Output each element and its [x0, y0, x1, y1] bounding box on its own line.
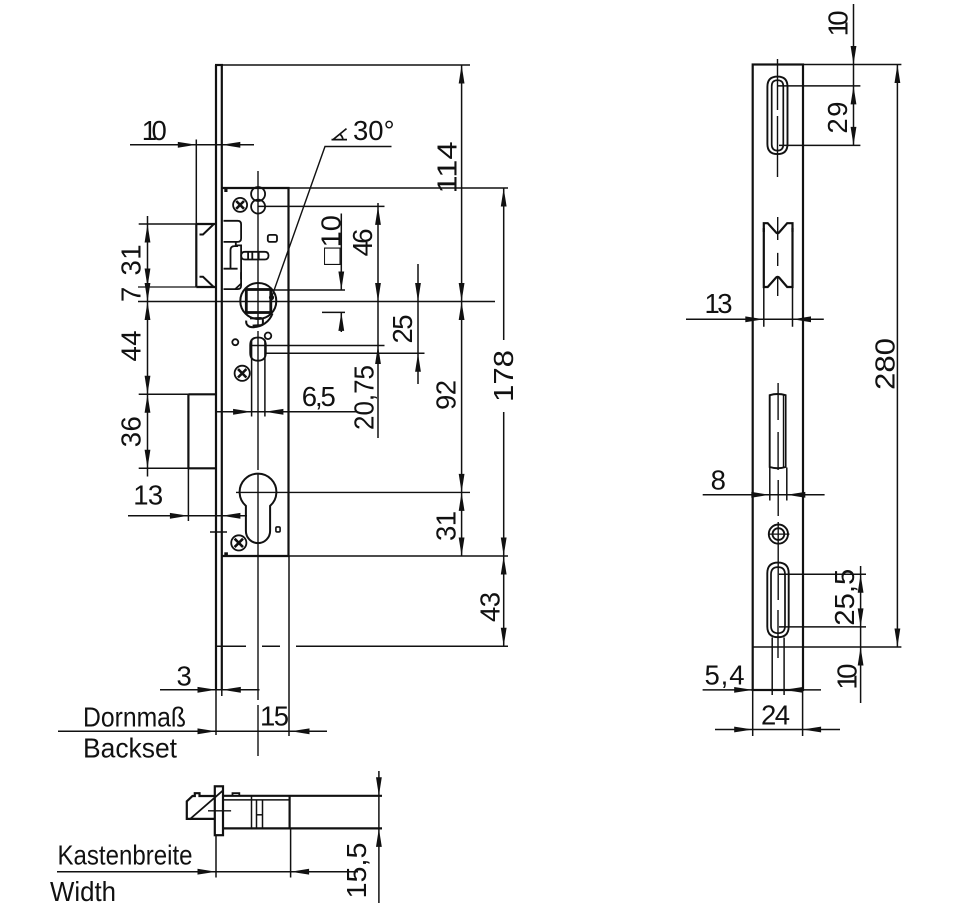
dim 13 deadbolt — [128, 515, 247, 517]
dim 10 bottom — [860, 647, 862, 703]
svg-text:10: 10 — [832, 664, 863, 690]
svg-text:31: 31 — [116, 245, 147, 276]
svg-text:8: 8 — [711, 465, 726, 496]
angle symbol — [332, 129, 348, 140]
svg-text:Dornmaß: Dornmaß — [83, 702, 186, 733]
dim 24 — [715, 729, 840, 731]
svg-text:280: 280 — [870, 338, 901, 390]
upper screw head with X — [233, 198, 247, 212]
svg-text:6,5: 6,5 — [302, 381, 336, 412]
bottom slot inner obround — [771, 567, 785, 633]
case back divider — [289, 796, 291, 829]
svg-text:5,4: 5,4 — [705, 660, 745, 691]
dim sq10 — [340, 214, 342, 333]
svg-text:43: 43 — [475, 592, 506, 622]
cylinder axis centerline y=492.4 — [236, 491, 470, 493]
latch head side view — [187, 793, 215, 819]
bottom slot outer obround — [767, 563, 788, 638]
right view arrows — [851, 46, 857, 65]
left view arrows — [178, 142, 197, 148]
top nub — [233, 793, 240, 796]
chamfer in lower rect — [235, 284, 241, 290]
svg-text:46: 46 — [347, 228, 378, 256]
svg-text:3: 3 — [177, 661, 192, 692]
extension ticks left side — [139, 223, 197, 225]
faceplate left edge — [215, 65, 217, 690]
dim 31/7/44/36 vertical dim line — [147, 216, 149, 477]
svg-text:25: 25 — [387, 315, 418, 344]
vertical centerline x=258 — [257, 171, 259, 756]
svg-text:15,5: 15,5 — [341, 843, 372, 899]
latch bevel marks — [200, 225, 214, 287]
screw hole — [769, 525, 788, 544]
lower rounded rect — [224, 269, 242, 289]
follower square nut — [240, 283, 276, 327]
case top/bottom extensions to 178 line — [289, 187, 509, 189]
small rect right of cylinder — [276, 527, 280, 532]
follower catch blob — [246, 314, 272, 328]
Kastenbreite dim line — [57, 871, 358, 873]
svg-text:20,75: 20,75 — [349, 365, 380, 430]
svg-text:36: 36 — [116, 416, 147, 447]
bottom view dimensions — [57, 771, 379, 903]
follower hub verticals — [252, 796, 263, 829]
top slot inner obround — [772, 80, 784, 150]
tick across faceplate at y=532 — [210, 531, 227, 533]
svg-text:30°: 30° — [353, 115, 395, 146]
svg-text:44: 44 — [116, 331, 147, 362]
dim 13 — [686, 318, 824, 320]
dim 10 top — [853, 4, 855, 65]
dim 10 latch protrusion — [130, 144, 254, 146]
dim 29 line — [853, 65, 855, 146]
dim 3 faceplate — [160, 689, 260, 691]
case bar top/bottom — [223, 796, 382, 829]
cylinder hole europrofile — [240, 474, 277, 543]
horizontal axis centerline y=301.5 — [138, 301, 495, 303]
svg-text:25,5: 25,5 — [829, 569, 860, 626]
middle guide shape — [240, 245, 242, 280]
inner top line — [223, 799, 290, 801]
svg-text:Backset: Backset — [83, 733, 177, 764]
V-notch cutout — [764, 223, 793, 233]
svg-text:178: 178 — [488, 350, 519, 402]
svg-text:31: 31 — [430, 511, 461, 541]
dim 46 / 20,75 line — [377, 203, 379, 438]
svg-text:7: 7 — [116, 287, 147, 302]
upper faceplate screw slot (two overlapping circles) — [251, 187, 265, 214]
dim 5,4 — [703, 689, 821, 691]
faceplate top edge — [215, 64, 223, 66]
svg-text:15: 15 — [260, 701, 289, 732]
dim 6,5 — [215, 411, 356, 413]
step under upper rect — [236, 242, 241, 246]
screw cross ticks — [768, 533, 790, 535]
latch bottom reference line y=287 — [138, 286, 196, 288]
tiny corner squares in case — [224, 189, 227, 192]
svg-text:Kastenbreite: Kastenbreite — [58, 840, 193, 871]
middle rect cutout — [770, 394, 786, 468]
svg-text:10: 10 — [823, 10, 854, 36]
svg-text:114: 114 — [432, 142, 463, 194]
30 degree leader line — [272, 147, 392, 298]
dim 25,5 — [860, 566, 862, 647]
latch bevel diagonal — [190, 790, 224, 819]
latch centerline tick — [208, 810, 231, 812]
svg-text:10: 10 — [142, 115, 167, 146]
stop pin small rect — [268, 235, 277, 242]
oval pin hole — [250, 338, 266, 361]
faceplate bar — [215, 786, 223, 835]
spring housing upper rounded rect — [224, 221, 242, 242]
dim 280 — [896, 65, 898, 648]
svg-text:24: 24 — [761, 700, 790, 731]
backset / 15 dim line — [58, 730, 327, 732]
right view centerline — [777, 59, 780, 658]
line y=647 across strip to 280-dim — [753, 646, 902, 648]
lower screw head with X — [231, 535, 246, 550]
svg-text:29: 29 — [822, 102, 853, 134]
strip outline — [753, 65, 803, 691]
middle screw head with X — [235, 366, 250, 381]
top slot outer obround — [767, 77, 787, 155]
pin holes small circles — [232, 339, 238, 345]
faceplate right edge — [221, 65, 223, 690]
lock case outline — [222, 188, 289, 556]
svg-text:Width: Width — [50, 876, 116, 907]
dim 178/43 line with text gap — [503, 188, 505, 646]
deadbolt box — [188, 394, 216, 468]
dim 114/92/31 line — [461, 65, 463, 556]
svg-text:□10: □10 — [316, 215, 347, 265]
dim 15,5 — [378, 771, 380, 903]
dim 8 — [703, 494, 825, 496]
svg-text:13: 13 — [705, 288, 733, 319]
top edge extension — [803, 64, 901, 66]
latch head box — [195, 224, 197, 287]
svg-text:92: 92 — [431, 380, 462, 410]
case internals: latch mechanism — [224, 221, 278, 289]
latch tail pill — [241, 252, 268, 260]
dim 25 line — [417, 264, 419, 384]
43 bottom dashed reference — [216, 645, 508, 647]
extension of top edge — [223, 64, 470, 66]
svg-text:13: 13 — [133, 480, 163, 511]
